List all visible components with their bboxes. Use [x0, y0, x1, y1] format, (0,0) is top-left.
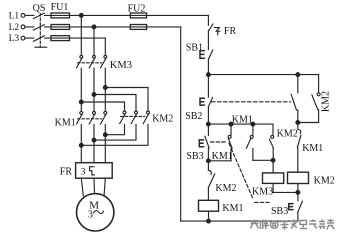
wire KM2 coil to join — [297, 184, 299, 193]
junction phase A feed to KM2 — [79, 100, 83, 104]
wire control right feed from L1 — [207, 15, 209, 25]
contactor KM1 aux NO self-hold contact — [230, 124, 232, 135]
wire phase C between KM3 and KM1 — [104, 68, 106, 111]
thermal relay FR heater symbol — [90, 167, 95, 175]
contactor KM1 NC interlock contact — [297, 123, 299, 130]
switch QS pole 2 — [33, 25, 44, 31]
coil KM1 — [199, 200, 219, 211]
wire phase C drop — [104, 38, 106, 55]
wire KM2 output 2 to phase B node — [94, 124, 136, 140]
svg-text:SB3: SB3 — [271, 206, 288, 217]
wire motor lead 2 into FR — [93, 124, 95, 162]
button SB3 mechanical link — [211, 141, 226, 143]
svg-text:3: 3 — [88, 210, 93, 221]
wire KM1 coil to bottom rail — [208, 211, 210, 221]
svg-text:KM1: KM1 — [222, 203, 243, 214]
wire join KM2 rung branches — [298, 122, 319, 124]
svg-text:FR: FR — [224, 26, 237, 37]
junction KM2 out2 / phase B — [92, 138, 96, 142]
svg-text:KM2: KM2 — [215, 183, 236, 194]
contactor KM3 main contact 1 — [80, 55, 83, 58]
motor M 3-phase — [77, 194, 114, 231]
svg-text:KM2: KM2 — [320, 91, 331, 112]
contactor KM3 main contact 3 — [104, 55, 107, 58]
junction phase A after FU1 — [79, 14, 83, 18]
wire KM2 output 3 to phase A node — [81, 124, 148, 145]
junction node B — [207, 122, 211, 126]
contactor KM3 main contact 2 — [93, 55, 96, 58]
wire SB1 to node A — [207, 59, 209, 75]
svg-text:SB3: SB3 — [186, 151, 203, 162]
button SB2 NO pole (KM2 rung) — [297, 75, 299, 93]
junction phase B feed to KM2 — [92, 93, 96, 97]
contactor KM1 main contact 2 — [93, 111, 96, 114]
svg-text:KM3: KM3 — [252, 187, 273, 198]
switch QS mechanical link — [39, 14, 41, 48]
svg-text:FR: FR — [60, 167, 73, 178]
junction node A right branch — [296, 73, 300, 77]
wire phase A between KM3 and KM1 — [80, 68, 82, 111]
junction KM2 out3 / phase A — [79, 143, 83, 147]
fuse FU1 pole 2 — [51, 25, 70, 30]
wire L3 row — [25, 37, 105, 39]
wire control left rail from L2 — [180, 27, 182, 221]
contactor KM2 aux NO contact a (KM3 rung) — [252, 124, 254, 135]
svg-text:KM2: KM2 — [152, 114, 173, 125]
wire bottom rail — [181, 220, 298, 222]
fuse FU1 pole 3 — [51, 36, 70, 41]
wire SB2 to node B — [207, 107, 209, 125]
contactor KM2 main contact 1 — [123, 111, 126, 114]
svg-text:KM2: KM2 — [314, 176, 335, 187]
junction phase C feed to KM2 — [103, 86, 107, 90]
contactor KM1 main contact 1 — [80, 111, 83, 114]
contactor KM2 main contact 2 — [135, 111, 138, 114]
wire L1 row — [25, 14, 208, 16]
contactor KM2 NC interlock contact — [207, 161, 209, 171]
svg-text:QS: QS — [33, 3, 46, 14]
junction coils join — [296, 191, 300, 195]
wire phase B between KM3 and KM1 — [93, 68, 95, 111]
wire KM2 output 1 to phase C node — [105, 124, 124, 134]
contactor KM3 mechanical link — [78, 62, 102, 64]
junction KM2 out1 / phase C — [103, 133, 107, 137]
button SB3 NC contact — [207, 124, 209, 136]
contactor KM1 main contact 3 — [104, 111, 107, 114]
junction phase B after FU1 — [92, 25, 96, 29]
junction KM2 rung — [296, 121, 300, 125]
wire FR to motor lead 1 — [81, 178, 83, 196]
wire phase A drop — [80, 15, 82, 55]
wire feed KM2 column 3 — [105, 88, 148, 112]
wire node A horizontal — [208, 74, 318, 76]
svg-text:KM1: KM1 — [55, 117, 76, 128]
wire SB3 to node C — [207, 148, 209, 161]
svg-text:FU1: FU1 — [51, 2, 69, 13]
junction node B at KM2 aux branch — [251, 122, 255, 126]
wire phase B drop — [93, 27, 95, 55]
wire FR to motor lead 3 — [104, 178, 105, 195]
fuse FU2 pole 2 — [130, 25, 146, 30]
coil KM2 — [288, 172, 309, 183]
button SB2 contact in KM1 rung — [207, 75, 209, 98]
junction bottom rail at KM1 coil — [207, 219, 211, 223]
contactor KM2 aux NO contact b (KM3 rung) — [272, 124, 274, 135]
wire KM3 coil to join — [272, 183, 274, 192]
wire FR to motor lead 2 — [93, 178, 96, 193]
junction node B at KM1 aux branch — [229, 122, 233, 126]
contactor KM2 main contact 3 — [147, 111, 150, 114]
svg-text:SB2: SB2 — [185, 111, 202, 122]
fuse FU1 pole 1 — [51, 13, 70, 18]
wire motor lead 3 into FR — [104, 124, 106, 162]
button SB1 NC stop — [200, 51, 204, 59]
wire join KM3 rung contacts — [253, 159, 273, 161]
svg-text:3: 3 — [81, 167, 86, 177]
svg-text:KM1: KM1 — [212, 151, 233, 162]
button SB3 NO pole contact — [297, 192, 299, 200]
svg-text:KM1: KM1 — [302, 143, 323, 154]
wire L2 row — [25, 26, 181, 28]
fuse FU2 pole 1 — [130, 13, 146, 18]
svg-text:KM3: KM3 — [110, 60, 132, 71]
contactor KM1 mechanical link — [78, 118, 102, 120]
junction node A — [207, 73, 211, 77]
coil KM3 — [263, 173, 284, 184]
wire feed KM2 column 1 — [81, 102, 124, 111]
contactor KM2 aux NO self-hold contact — [318, 75, 320, 93]
svg-text:L1: L1 — [9, 11, 20, 21]
junction KM3 coil top — [271, 158, 275, 162]
junction node C — [207, 159, 211, 163]
wire coils join — [273, 191, 298, 193]
svg-text:L2: L2 — [9, 23, 20, 33]
wire node B horizontal — [208, 123, 273, 125]
wire FR to SB1 — [207, 30, 209, 49]
thermal relay FR NC contact — [209, 24, 213, 30]
wire to KM3 coil — [272, 160, 274, 173]
button SB2 mechanical link — [212, 101, 291, 103]
wire motor lead 1 into FR — [80, 124, 82, 162]
svg-text:L3: L3 — [9, 34, 20, 44]
thermal relay FR box — [76, 163, 113, 179]
switch QS pole 1 — [33, 13, 44, 19]
contactor KM2 mechanical link — [121, 115, 145, 117]
svg-text:KM1: KM1 — [232, 115, 253, 126]
watermark — [251, 219, 335, 230]
wire feed KM2 column 2 — [94, 95, 136, 112]
switch QS pole 3 — [33, 36, 44, 42]
wire KM1 aux to node C — [208, 160, 231, 162]
svg-text:KM2: KM2 — [277, 129, 298, 140]
